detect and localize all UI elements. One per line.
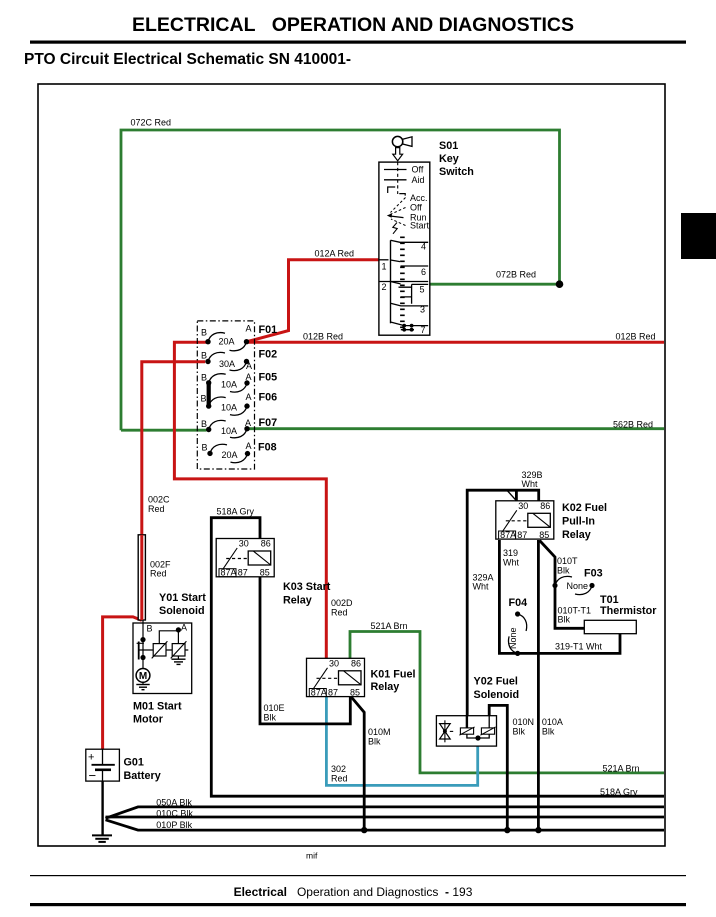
- svg-text:Relay: Relay: [562, 529, 591, 541]
- svg-text:Relay: Relay: [371, 681, 400, 693]
- svg-text:2: 2: [382, 282, 387, 292]
- schematic border frame: [38, 84, 665, 846]
- svg-text:521A Brn: 521A Brn: [603, 764, 640, 774]
- svg-text:85: 85: [350, 687, 360, 697]
- wire 518A Gry loop and bottom bus: [211, 518, 664, 797]
- wire 010N Blk from Y02 solenoid to ground bus: [489, 705, 507, 830]
- wire 010C Blk bus: [106, 816, 665, 819]
- footer rule thin: [30, 875, 686, 876]
- svg-text:Start: Start: [410, 221, 430, 231]
- svg-text:518A Gry: 518A Gry: [217, 507, 255, 517]
- svg-text:B: B: [201, 442, 207, 452]
- svg-text:Battery: Battery: [124, 770, 161, 782]
- svg-text:B: B: [200, 393, 206, 403]
- wire 521A Brn (green): [350, 632, 664, 773]
- footer rule thick: [30, 903, 686, 906]
- svg-text:010T: 010T: [557, 556, 578, 566]
- key switch S01: [379, 136, 474, 335]
- svg-text:Y01 Start: Y01 Start: [159, 592, 206, 604]
- fuse F08 20A: [201, 441, 276, 463]
- svg-text:F06: F06: [259, 392, 278, 404]
- svg-text:A: A: [245, 418, 251, 428]
- svg-text:Blk: Blk: [558, 615, 571, 625]
- svg-text:87A: 87A: [311, 687, 327, 697]
- relay K01 Fuel Relay: [307, 658, 416, 697]
- jumper between F05 B and F06 B: [207, 383, 211, 406]
- header rule: [30, 41, 686, 44]
- svg-text:K01 Fuel: K01 Fuel: [371, 669, 416, 681]
- svg-text:072C Red: 072C Red: [131, 118, 172, 128]
- wire 010A Blk from K02 pin 85 to ground bus: [537, 540, 540, 830]
- fuse F01 20A: [201, 324, 277, 351]
- wire 010E Blk from K03 pin 85 to K01 pin 85: [260, 577, 350, 724]
- svg-text:Solenoid: Solenoid: [159, 605, 205, 617]
- svg-text:302: 302: [331, 764, 346, 774]
- svg-text:562B Red: 562B Red: [613, 420, 653, 430]
- svg-text:Switch: Switch: [439, 166, 474, 178]
- fuse F06 10A: [200, 392, 277, 416]
- svg-text:Wht: Wht: [522, 479, 539, 489]
- page edge tab: [681, 213, 716, 259]
- svg-text:−: −: [89, 768, 97, 783]
- svg-text:Motor: Motor: [133, 714, 164, 726]
- svg-text:Pull-In: Pull-In: [562, 516, 595, 528]
- thermistor T01: [584, 594, 657, 634]
- wire battery positive to Y01 B junction: [103, 617, 142, 749]
- svg-text:521A Brn: 521A Brn: [371, 621, 408, 631]
- svg-text:87A: 87A: [500, 530, 516, 540]
- svg-text:87: 87: [328, 687, 338, 697]
- svg-text:6: 6: [421, 267, 426, 277]
- svg-text:Blk: Blk: [557, 566, 570, 576]
- svg-text:Y02 Fuel: Y02 Fuel: [474, 676, 518, 688]
- svg-text:Relay: Relay: [283, 595, 312, 607]
- wire 329B Wht diagonal tap to K02 pin 30: [507, 491, 516, 501]
- svg-text:F08: F08: [258, 442, 277, 454]
- svg-text:85: 85: [539, 530, 549, 540]
- svg-text:012B Red: 012B Red: [303, 332, 343, 342]
- svg-text:A: A: [246, 361, 252, 371]
- fuse block border: [197, 321, 254, 469]
- svg-text:B: B: [201, 373, 207, 383]
- svg-text:010C Blk: 010C Blk: [156, 809, 193, 819]
- svg-text:G01: G01: [124, 757, 144, 769]
- wire 562B Red left segment (green): [121, 429, 207, 432]
- svg-text:Wht: Wht: [503, 558, 520, 568]
- svg-text:87: 87: [238, 568, 248, 578]
- svg-text:B: B: [201, 328, 207, 338]
- wire 329B Wht leg into K02 pin 30: [515, 490, 518, 501]
- svg-text:072B Red: 072B Red: [496, 270, 536, 280]
- battery G01: [86, 749, 161, 783]
- svg-text:012A Red: 012A Red: [315, 249, 355, 259]
- svg-text:Electrical Operation and Dia: Electrical Operation and Diagnostics - 1…: [234, 885, 473, 899]
- wire 002C Red from fuse F02 B down to fusible link: [142, 362, 205, 535]
- node 010N on ground bus: [504, 827, 510, 833]
- svg-text:K03 Start: K03 Start: [283, 581, 331, 593]
- wire 072C Red / 072B Red (green): [121, 130, 560, 430]
- svg-text:Wht: Wht: [473, 582, 490, 592]
- svg-text:012B Red: 012B Red: [616, 332, 656, 342]
- wire 562B Red right segment (green): [248, 427, 665, 430]
- svg-text:10A: 10A: [221, 426, 237, 436]
- solenoid Y01 Start Solenoid with motor M01: [133, 592, 206, 726]
- svg-text:B: B: [147, 623, 153, 633]
- svg-text:+: +: [88, 752, 94, 764]
- svg-text:002C: 002C: [148, 495, 170, 505]
- svg-text:30: 30: [329, 659, 339, 669]
- svg-text:050A Blk: 050A Blk: [156, 798, 192, 808]
- fuse F02 30A: [201, 349, 277, 372]
- wire 319 Wht / 319-T1 Wht: [499, 540, 620, 653]
- svg-text:Off: Off: [412, 165, 424, 175]
- svg-text:None: None: [567, 581, 589, 591]
- svg-text:Red: Red: [331, 774, 348, 784]
- svg-text:Blk: Blk: [368, 737, 381, 747]
- svg-text:Blk: Blk: [264, 713, 277, 723]
- svg-text:87A: 87A: [221, 568, 237, 578]
- svg-text:M01 Start: M01 Start: [133, 701, 182, 713]
- svg-text:B: B: [201, 351, 207, 361]
- svg-text:Off: Off: [410, 203, 422, 213]
- fuse F04 (None): [508, 597, 527, 656]
- node 010A on ground bus: [535, 827, 541, 833]
- svg-text:30: 30: [239, 539, 249, 549]
- svg-text:K02 Fuel: K02 Fuel: [562, 502, 607, 514]
- node 072B Red junction: [556, 280, 564, 288]
- wire battery negative to ground: [101, 781, 103, 835]
- svg-text:3: 3: [420, 304, 425, 314]
- svg-text:010M: 010M: [368, 727, 391, 737]
- svg-text:10A: 10A: [221, 380, 237, 390]
- svg-text:20A: 20A: [221, 450, 237, 460]
- svg-text:319-T1 Wht: 319-T1 Wht: [555, 642, 603, 652]
- svg-text:Red: Red: [148, 504, 165, 514]
- wire 302 Red (light blue): [326, 696, 477, 785]
- svg-text:F04: F04: [509, 597, 528, 609]
- svg-text:30: 30: [518, 501, 528, 511]
- svg-text:Aid: Aid: [412, 175, 425, 185]
- relay K02 Fuel Pull-In Relay: [496, 501, 607, 541]
- fusible link 002F Red: [138, 535, 145, 620]
- svg-text:Blk: Blk: [513, 727, 526, 737]
- wire 010T Blk / 010T-T1 Blk: [540, 541, 585, 629]
- svg-text:010E: 010E: [264, 703, 285, 713]
- svg-text:20A: 20A: [218, 337, 234, 347]
- svg-text:F05: F05: [259, 372, 278, 384]
- svg-text:86: 86: [261, 539, 271, 549]
- wire 010M Blk from K01 pin 85 to ground bus: [351, 697, 364, 830]
- svg-text:B: B: [201, 419, 207, 429]
- svg-text:mif: mif: [306, 851, 318, 861]
- svg-text:10A: 10A: [221, 403, 237, 413]
- svg-text:Red: Red: [331, 608, 348, 618]
- svg-text:A: A: [245, 441, 251, 451]
- svg-text:010N: 010N: [513, 717, 535, 727]
- fuse F07 10A: [201, 417, 277, 438]
- svg-text:F03: F03: [584, 568, 603, 580]
- wire 002D Red from fuse F01 B to K01 pin 30: [174, 342, 326, 658]
- svg-text:A: A: [245, 372, 251, 382]
- svg-text:5: 5: [420, 284, 425, 294]
- wire 329A Wht / 329B Wht: [467, 490, 539, 716]
- svg-text:Acc.: Acc.: [410, 193, 428, 203]
- svg-text:ELECTRICAL OPERATION AND DIA: ELECTRICAL OPERATION AND DIAGNOSTICS: [132, 14, 574, 36]
- ground G01 battery: [92, 835, 112, 842]
- wire 012A Red: [246, 260, 381, 342]
- svg-text:010P Blk: 010P Blk: [156, 820, 192, 830]
- svg-text:S01: S01: [439, 140, 458, 152]
- svg-text:F01: F01: [259, 324, 278, 336]
- svg-text:A: A: [245, 392, 251, 402]
- svg-text:None: None: [508, 627, 518, 649]
- svg-text:86: 86: [351, 659, 361, 669]
- node 010M on ground bus: [361, 827, 367, 833]
- fuse F05 10A: [201, 372, 277, 393]
- svg-text:Blk: Blk: [542, 727, 555, 737]
- wire 050A Blk bus: [106, 807, 665, 818]
- svg-text:M: M: [139, 671, 147, 682]
- relay K03 Start Relay: [216, 539, 331, 607]
- svg-text:7: 7: [421, 325, 426, 335]
- svg-text:Solenoid: Solenoid: [474, 689, 520, 701]
- svg-text:F02: F02: [259, 349, 278, 361]
- svg-text:010A: 010A: [542, 717, 563, 727]
- svg-text:30A: 30A: [219, 359, 235, 369]
- svg-text:002D: 002D: [331, 598, 353, 608]
- svg-text:85: 85: [260, 568, 270, 578]
- svg-text:Red: Red: [150, 569, 167, 579]
- svg-text:1: 1: [382, 261, 387, 271]
- fuse F03 (None): [552, 568, 602, 595]
- wire 012B Red: [246, 341, 664, 344]
- svg-text:Thermistor: Thermistor: [600, 605, 657, 617]
- svg-text:PTO Circuit Electrical Schemat: PTO Circuit Electrical Schematic SN 4100…: [24, 51, 351, 68]
- svg-text:Key: Key: [439, 153, 459, 165]
- wire 010P Blk bus: [106, 820, 665, 830]
- svg-text:F07: F07: [259, 417, 278, 429]
- svg-text:86: 86: [540, 501, 550, 511]
- svg-text:4: 4: [421, 242, 426, 252]
- svg-text:319: 319: [503, 548, 518, 558]
- svg-text:A: A: [181, 622, 187, 632]
- svg-text:518A Gry: 518A Gry: [600, 787, 638, 797]
- solenoid Y02 Fuel Solenoid: [436, 676, 519, 747]
- svg-text:87: 87: [517, 530, 527, 540]
- svg-text:A: A: [245, 324, 251, 334]
